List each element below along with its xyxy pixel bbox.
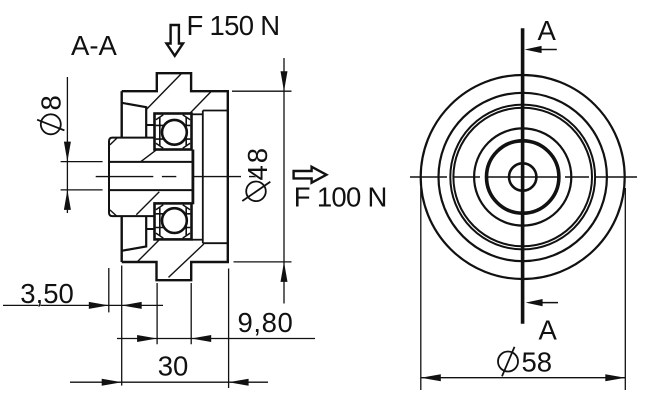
section arrow top — [525, 46, 557, 53]
label Ø8 (rotated) — [35, 95, 66, 134]
front view shaft circle Ø8 — [509, 163, 536, 190]
right block top edge — [203, 110, 228, 112]
centerline left view — [96, 176, 256, 178]
right block left edge — [202, 111, 204, 244]
svg-text:A: A — [539, 315, 558, 346]
dimension Ø8 line — [66, 77, 68, 213]
dimension 30 line — [70, 381, 268, 383]
dimension 9,80 extension lines — [157, 283, 191, 344]
dimension Ø48 extension lines — [232, 91, 292, 262]
label 3,50 — [20, 278, 74, 309]
spacer corner tick bottom-left — [110, 210, 117, 216]
bearing B1 (upper) — [155, 114, 192, 150]
dimension Ø58 arrows — [421, 374, 626, 381]
hatch bottom notch to hub — [169, 244, 204, 277]
dimension 3,50 line — [3, 304, 163, 306]
pulley left face (lower) — [120, 216, 122, 262]
label F 100 N — [294, 181, 387, 212]
dimension 30 extension line hub left — [121, 266, 123, 386]
dimension 3,50 arrows — [89, 302, 142, 309]
force arrow F 150 N — [167, 25, 184, 56]
svg-text:F 150 N: F 150 N — [187, 10, 280, 41]
section label A-A — [71, 30, 118, 61]
dimension Ø8 arrows — [64, 142, 71, 210]
hatch spacer upper — [141, 150, 157, 162]
pulley rim outer profile (section) — [122, 73, 228, 280]
label F 150 N — [187, 10, 280, 41]
dimension 30 arrows — [102, 379, 249, 386]
label Ø48 (rotated) — [242, 146, 273, 201]
rim bore edge lower — [146, 228, 154, 230]
label A top — [538, 15, 557, 46]
front view groove circle inner — [453, 108, 592, 247]
section arrow bottom — [526, 299, 558, 306]
hub right face — [191, 150, 194, 205]
hub right step bottom — [192, 239, 203, 241]
front view hub circle — [474, 128, 571, 225]
rim bore edge upper — [146, 124, 154, 126]
svg-text:48: 48 — [242, 146, 273, 181]
hatch lower web — [137, 240, 159, 261]
svg-text:A: A — [538, 15, 557, 46]
dimension Ø48 line — [283, 58, 285, 304]
label A bottom — [539, 315, 558, 346]
svg-text:F 100 N: F 100 N — [294, 181, 387, 212]
front view circle Ø48 — [439, 93, 607, 261]
rim inner cone edge (lower) — [122, 216, 147, 251]
shaft Ø8 top edge — [109, 161, 193, 163]
svg-text:9,80: 9,80 — [238, 307, 294, 338]
label 9,80 — [238, 307, 294, 338]
dimension Ø8 extension lines — [61, 162, 103, 190]
svg-text:A-A: A-A — [71, 30, 118, 61]
bearing B2 (lower, mirrored) — [155, 203, 192, 239]
label 30 — [158, 351, 189, 382]
force arrow F 100 N — [294, 167, 327, 183]
pulley left face (upper) — [120, 91, 122, 137]
front view outer circle Ø58 — [421, 75, 625, 279]
svg-text:30: 30 — [158, 351, 189, 382]
hatch hub right upper — [190, 92, 211, 114]
dimension 9,80 arrows — [137, 335, 211, 342]
right block bottom edge — [203, 242, 228, 244]
spacer sleeve (left collar) — [109, 138, 155, 217]
section line A-A (thick) — [521, 28, 525, 324]
svg-text:3,50: 3,50 — [20, 278, 74, 309]
centerline front view horizontal — [410, 176, 637, 178]
svg-text:8: 8 — [35, 95, 66, 110]
spacer corner tick top-left — [110, 138, 117, 145]
hub right step top — [192, 113, 203, 115]
dimension Ø48 arrows — [281, 71, 288, 282]
rim inner cone edge (upper) — [122, 103, 147, 138]
dimension 9,80 line — [117, 338, 315, 340]
front view bearing circle (thick) — [487, 141, 559, 213]
dimension 3,50 extension line shaft end — [108, 268, 110, 312]
hatch upper rim/ridge — [147, 73, 182, 109]
shaft Ø8 bottom edge — [109, 189, 193, 191]
dimension Ø58 line — [421, 377, 626, 379]
dimension Ø58 extension lines — [421, 188, 626, 390]
front view groove circle outer — [450, 105, 595, 250]
dimension 30 extension line right — [228, 269, 230, 389]
svg-text:58: 58 — [522, 347, 553, 378]
label Ø58 — [498, 347, 552, 378]
hatch spacer lower — [136, 192, 159, 215]
